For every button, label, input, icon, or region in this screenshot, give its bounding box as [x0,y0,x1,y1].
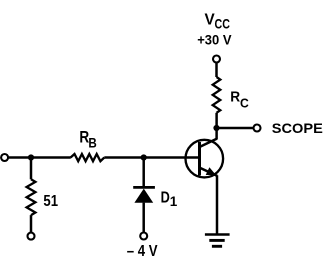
svg-text:– 4 V: – 4 V [127,243,158,260]
svg-text:51: 51 [43,193,58,210]
svg-text:SCOPE: SCOPE [272,121,323,136]
svg-text:1: 1 [170,194,178,209]
svg-text:CC: CC [215,17,230,32]
svg-text:B: B [88,135,96,151]
svg-text:C: C [240,95,249,110]
svg-text:+30 V: +30 V [197,32,232,48]
svg-text:D: D [161,189,170,206]
